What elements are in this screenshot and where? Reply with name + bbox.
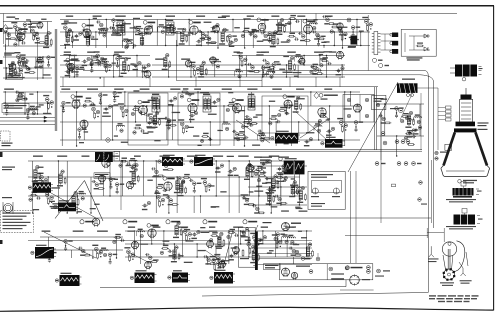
audio output enclosure (280, 264, 373, 280)
pilot lamp (372, 58, 376, 62)
section divider horizontal (0, 148, 422, 150)
phono caption (406, 57, 422, 58)
wire bottom-band top rail (28, 240, 210, 242)
bottom band texture main (125, 230, 312, 232)
power transformer T-PWR (455, 65, 477, 77)
quad coil can (248, 96, 255, 110)
tube below PA (99, 175, 106, 182)
focus cluster (381, 132, 385, 136)
CRT base cap (461, 95, 472, 100)
AGC enclosure left (262, 96, 308, 133)
width control box (238, 227, 255, 267)
IF can T2 (166, 22, 174, 35)
stage enclosure box 1 (128, 93, 168, 145)
stage enclosure box 2 (178, 93, 220, 145)
inter-band vertical wires (62, 77, 64, 87)
waveform photo W9 (60, 275, 80, 286)
waveform photo W4 (194, 157, 213, 166)
small comp on sweep wire (392, 184, 396, 187)
mid band left tuner-lower texture (3, 91, 52, 93)
waveform photo W1 (33, 182, 52, 193)
brightness pot (399, 108, 403, 112)
tube V31 (291, 272, 297, 278)
delay line (351, 36, 358, 45)
instruction note box (1, 211, 34, 233)
wire bottom bus 2 (202, 293, 428, 297)
CRT socket leads (446, 106, 452, 109)
wire bus lower mid 2 (345, 235, 428, 237)
coil L-mix (140, 38, 144, 45)
antenna input diamond (3, 25, 9, 33)
wire HV to CRT (418, 87, 439, 89)
speaker horn outline (452, 241, 465, 273)
mid band right divider pair (374, 87, 376, 150)
AC switch (379, 63, 383, 67)
tube V32 damper (350, 275, 360, 285)
picture tube label (458, 180, 462, 184)
osc coil L2 (333, 188, 339, 194)
tuner section divider (54, 29, 56, 131)
CRT funnel left (444, 132, 455, 165)
horiz osc enclosure box (308, 171, 345, 209)
arrow sound takeoff (44, 116, 47, 118)
bottom band header labels (80, 220, 84, 224)
wire vertical x121 (120, 160, 122, 210)
HV rectifier caps (407, 94, 410, 97)
CRT neck (460, 99, 473, 122)
vert output label box (264, 264, 281, 270)
top band row 2 texture B sparse (152, 64, 232, 66)
tube V33 vert out (282, 223, 290, 231)
wire L second row (175, 40, 177, 81)
wire IF bus (60, 86, 378, 88)
wire heater bus 2 (200, 74, 420, 76)
waveform photo W8 (35, 247, 54, 259)
wire sound takeoff 1 (0, 117, 55, 119)
waveform photo W11 (172, 273, 188, 283)
legs right (459, 262, 466, 276)
diag wire lambda left (55, 181, 85, 219)
top band row 1 texture (3, 21, 52, 23)
left edge stub components (0, 28, 3, 32)
wire to speaker (426, 228, 428, 238)
wire bend right 1 (424, 71, 428, 293)
CRT yoke band 1 (456, 122, 476, 127)
electrolytic C1A (392, 33, 398, 38)
component box right (372, 95, 386, 109)
IF can T3 (152, 96, 160, 112)
wire B+ top bus (0, 13, 457, 15)
phono jack box (401, 29, 436, 56)
diag wire lower-left (51, 193, 96, 218)
mid band texture (60, 91, 360, 93)
wire sound takeoff 2 (0, 120, 55, 122)
damper label (346, 266, 350, 270)
credit text block (429, 295, 436, 296)
yoke plug socket (444, 269, 455, 280)
wire bend right 2 (420, 75, 434, 228)
part above enclosure (316, 257, 320, 261)
tube V28 above W10 (145, 262, 152, 269)
wire tuner left verticals (5, 44, 7, 80)
waveform photo W6 (275, 133, 298, 144)
top band row 2 texture C (232, 55, 345, 57)
tube V29 above W12 (219, 261, 226, 268)
electrolytic C1C (392, 49, 398, 54)
osc coil L1 (312, 188, 318, 194)
waveform photo W10 (135, 273, 155, 284)
diag wire right-mid (348, 82, 398, 172)
wire wavy down (255, 225, 258, 262)
electrolytic C1B (392, 41, 398, 46)
yoke label (478, 122, 489, 123)
lower band texture (28, 160, 300, 162)
audio label (296, 266, 310, 267)
yoke wires fan (258, 240, 312, 242)
boxed label AC keyed (94, 173, 110, 179)
volume control (106, 138, 110, 142)
turret label box (7, 74, 23, 80)
diag wire width box (223, 230, 233, 268)
transformer caption circle (462, 77, 466, 81)
waveform photo W3 (162, 157, 183, 166)
horiz AFC texture (248, 165, 307, 167)
wire bus lower mid (250, 217, 431, 219)
wire video vertical (315, 14, 317, 26)
IF can T1 (117, 22, 125, 35)
IF can T4 (203, 96, 211, 112)
diag wire to W7 (296, 112, 327, 140)
yoke connector bar (255, 232, 258, 271)
AGC label (324, 95, 338, 96)
AGC keyer enclosure (343, 95, 374, 123)
power transformer low (4, 204, 13, 213)
waveform photo PA pair (95, 152, 104, 162)
coil L-ant (86, 35, 90, 45)
border frame top (0, 5, 494, 7)
resistor R-phono (417, 45, 422, 47)
control functions note (2, 167, 15, 168)
wire heater bus (83, 70, 424, 72)
wire bottom bus 1 (100, 280, 346, 288)
border frame bottom (0, 307, 494, 311)
waveform photo W7 (325, 139, 343, 148)
diag wire to W6 (236, 120, 270, 143)
crystal diode 2 (424, 47, 428, 51)
tuner note box (2, 104, 29, 113)
bottom band texture left (40, 236, 123, 238)
CRT screen front (441, 166, 490, 177)
stand-off legs left (429, 246, 434, 257)
small part right (377, 269, 381, 273)
diag wire lambda right (85, 181, 104, 222)
sweep enclosure outline (380, 112, 382, 223)
wire bottom bus right stub (340, 289, 374, 291)
waveform photo W5 tall pair (284, 161, 294, 175)
top band row 2 texture A (60, 55, 150, 57)
wire transformer leads (450, 67, 455, 69)
interlock connector J1 (374, 32, 378, 55)
border frame right (493, 6, 495, 311)
contrast pot (347, 18, 351, 22)
diamond node AGC (314, 93, 319, 99)
speaker (442, 242, 456, 256)
crystal diode 1 (424, 34, 428, 38)
waveform photo W2 (58, 203, 76, 212)
diag wires bottom (44, 232, 96, 258)
ion trap magnet (445, 144, 452, 150)
parts on right bus (419, 181, 423, 185)
socket captions (440, 282, 454, 283)
dashed box small (1, 131, 11, 141)
wire horiz vertical pair (350, 171, 352, 263)
wire focus vertical 1 (420, 93, 422, 150)
right-mid texture band (377, 103, 424, 105)
tube V30 audio out (282, 268, 290, 276)
diag wire AGC to sync (300, 118, 330, 138)
HV transformer T-HV (397, 83, 418, 93)
label left of W5 (260, 157, 272, 158)
CRT yoke band 2 (454, 128, 477, 132)
CRT pin resistors row (375, 162, 379, 166)
waveform photo W12 (214, 272, 233, 284)
wire sync-vert boundary (69, 217, 250, 219)
deflection yoke detail 2 (462, 209, 467, 214)
CRT funnel right (476, 132, 488, 165)
right mid cluster (407, 116, 410, 125)
wire top-right verticals (367, 62, 369, 71)
wires connector to caps (381, 33, 393, 35)
wire sound takeoff 3 (0, 124, 55, 126)
wire video-out verticals (380, 112, 382, 160)
top band row 2 left texture (3, 56, 52, 58)
to-rf-module label (263, 222, 272, 223)
top band row 1b texture (60, 19, 370, 21)
deflection yoke detail 1 (461, 182, 466, 187)
